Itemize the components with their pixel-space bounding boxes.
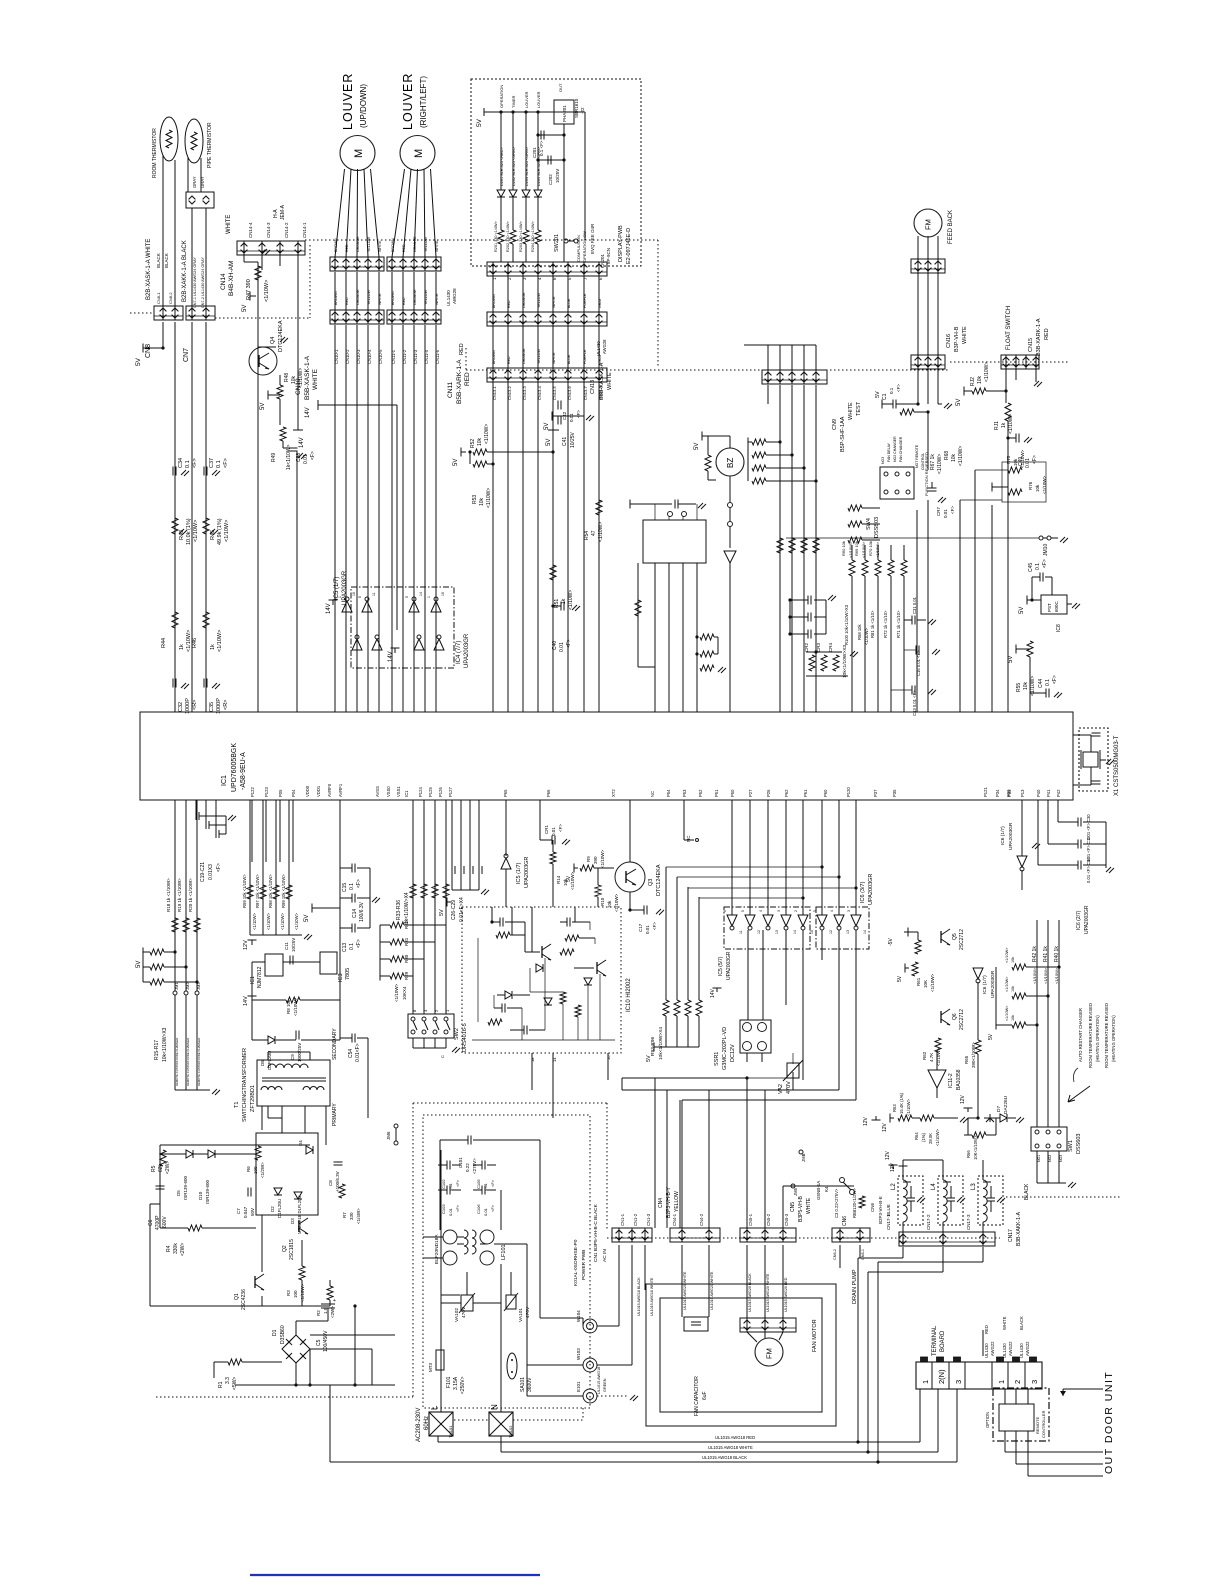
svg-text:BLACK: BLACK	[164, 253, 169, 268]
svg-text:B5B-XARK-1-A: B5B-XARK-1-A	[456, 359, 463, 404]
svg-text:P26: P26	[766, 789, 771, 797]
svg-text:WHITE: WHITE	[552, 352, 556, 364]
svg-text:B3P5-VH-B: B3P5-VH-B	[798, 1195, 804, 1222]
svg-text:C41: C41	[562, 437, 568, 446]
svg-text:C5: C5	[316, 1339, 322, 1346]
svg-text:RED: RED	[345, 297, 349, 305]
svg-text:POWER PWB: POWER PWB	[581, 1250, 587, 1280]
svg-text:R7: R7	[342, 1212, 347, 1218]
svg-text:JMB: JMB	[801, 1153, 806, 1162]
svg-text:12: 12	[757, 930, 761, 934]
svg-text:TERMINAL: TERMINAL	[932, 1325, 938, 1356]
svg-text:R59 10k <1/10W>: R59 10k <1/10W>	[242, 874, 247, 908]
svg-text:WHITE: WHITE	[962, 326, 968, 344]
svg-text:R69 10k: R69 10k	[854, 541, 859, 556]
svg-text:CN11-5: CN11-5	[435, 349, 440, 364]
svg-text:11: 11	[739, 930, 743, 934]
svg-text:390: 390	[593, 856, 598, 864]
svg-text:UPA2003GR: UPA2003GR	[524, 857, 530, 888]
svg-text:ZFT29BD1: ZFT29BD1	[250, 1085, 256, 1112]
svg-text:IC8: IC8	[1056, 624, 1062, 632]
svg-text:JM2: JM2	[185, 982, 190, 990]
svg-text:1: 1	[427, 596, 431, 598]
svg-text:2SC4236: 2SC4236	[241, 1289, 247, 1310]
svg-text:WHITE: WHITE	[312, 368, 319, 390]
svg-text:UPA2003GR: UPA2003GR	[1008, 822, 1014, 850]
svg-text:VDD0: VDD0	[305, 785, 310, 797]
svg-text:49.9k (1%): 49.9k (1%)	[217, 518, 223, 545]
svg-text:100/6.3V: 100/6.3V	[359, 901, 365, 922]
svg-text:WHITE: WHITE	[435, 293, 439, 305]
svg-text:B8B-XASK-1-A: B8B-XASK-1-A	[599, 362, 605, 400]
svg-text:NOT REMOTE: NOT REMOTE	[915, 444, 919, 468]
svg-text:(UP/DOWN): (UP/DOWN)	[359, 84, 368, 128]
svg-text:AVRF0: AVRF0	[327, 783, 332, 797]
svg-text:RJ2: RJ2	[970, 377, 976, 386]
svg-text:TM101: TM101	[448, 1425, 453, 1438]
svg-text:11: 11	[372, 592, 376, 596]
svg-text:<1/10W>: <1/10W>	[614, 893, 619, 912]
svg-text:2SC2712: 2SC2712	[959, 1009, 965, 1030]
svg-text:<1/4W>: <1/4W>	[356, 1208, 361, 1224]
svg-text:62k: 62k	[158, 1163, 164, 1172]
svg-text:P122: P122	[250, 787, 255, 797]
svg-text:JM6: JM6	[386, 1131, 391, 1140]
svg-text:<1/10W>: <1/10W>	[1032, 967, 1037, 984]
svg-text:2SC1815: 2SC1815	[289, 1239, 295, 1260]
svg-text:B3B-XARK-1-A: B3B-XARK-1-A	[1036, 318, 1042, 356]
svg-text:5V: 5V	[476, 118, 483, 127]
svg-text:CN6-2: CN6-2	[833, 1249, 837, 1260]
svg-text:P34: P34	[995, 789, 1000, 797]
svg-text:16: 16	[441, 592, 445, 596]
svg-text:R98 10k <1/10W>: R98 10k <1/10W>	[268, 874, 273, 908]
svg-text:OPERATION: OPERATION	[499, 85, 504, 108]
svg-text:13: 13	[846, 930, 850, 934]
svg-text:<1/10W>: <1/10W>	[217, 630, 223, 652]
svg-text:VA101: VA101	[518, 1308, 524, 1322]
svg-text:FAN DELAY: FAN DELAY	[887, 442, 891, 462]
svg-text:CN17-1: CN17-1	[886, 1214, 891, 1230]
svg-text:1k: 1k	[1001, 422, 1007, 428]
svg-text:YELLOW: YELLOW	[367, 289, 371, 305]
svg-text:CN10-5: CN10-5	[378, 349, 383, 364]
svg-text:0.1: 0.1	[216, 460, 222, 468]
svg-text:VSS0: VSS0	[386, 786, 391, 797]
svg-text:IC1: IC1	[221, 775, 228, 786]
svg-text:2: 2	[1013, 1380, 1022, 1384]
svg-text:YELLOW: YELLOW	[674, 1191, 680, 1212]
svg-text:C15: C15	[342, 883, 348, 892]
svg-text:<F>: <F>	[1052, 675, 1058, 684]
svg-text:FAN CAPACITOR: FAN CAPACITOR	[694, 1376, 700, 1416]
svg-text:OUT: OUT	[558, 83, 563, 92]
svg-text:LOUVER: LOUVER	[401, 73, 415, 130]
svg-text:(HEATING OPERATION): (HEATING OPERATION)	[1111, 1015, 1116, 1062]
svg-text:FEED BACK: FEED BACK	[948, 210, 954, 244]
svg-text:UL1430: UL1430	[446, 290, 451, 306]
svg-text:CN1-2: CN1-2	[633, 1213, 638, 1226]
svg-text:(RIGHT/LEFT): (RIGHT/LEFT)	[419, 76, 428, 128]
svg-text:12V: 12V	[863, 1116, 869, 1126]
svg-text:<1/10W>: <1/10W>	[1043, 967, 1048, 984]
svg-text:<1/10W>: <1/10W>	[600, 849, 605, 868]
svg-text:100: 100	[253, 1166, 258, 1174]
svg-text:REMOTE CUSTOM CODE CHANGER: REMOTE CUSTOM CODE CHANGER	[186, 1038, 190, 1086]
svg-text:FM: FM	[765, 1348, 774, 1359]
svg-text:600C: 600C	[1054, 600, 1059, 612]
svg-text:C26-C29: C26-C29	[451, 900, 457, 920]
svg-text:CN7: CN7	[183, 348, 190, 362]
svg-text:BLACK: BLACK	[1019, 1316, 1024, 1330]
svg-text:SBR1610: SBR1610	[574, 98, 579, 118]
svg-text:10k<1/10W>X3: 10k<1/10W>X3	[842, 645, 848, 678]
svg-text:CN7-2 UL1430 AWG24 GRAY: CN7-2 UL1430 AWG24 GRAY	[201, 257, 205, 308]
svg-text:C7: C7	[236, 1208, 241, 1214]
svg-text:CN9: CN9	[832, 419, 838, 430]
svg-text:K01AL-0SORHSE-P0: K01AL-0SORHSE-P0	[573, 1239, 579, 1286]
svg-text:CN1-1: CN1-1	[620, 1213, 625, 1226]
svg-text:10/25V: 10/25V	[291, 938, 296, 952]
svg-text:R53: R53	[472, 495, 478, 504]
svg-text:N: N	[490, 1404, 499, 1410]
svg-text:-22: -22	[580, 107, 585, 114]
svg-text:Q2: Q2	[282, 1245, 288, 1252]
svg-text:E101: E101	[576, 1381, 581, 1392]
svg-text:VDD1: VDD1	[316, 785, 321, 797]
svg-text:P127: P127	[448, 787, 453, 797]
svg-text:CN4-2: CN4-2	[699, 1213, 704, 1226]
svg-text:CN14-3: CN14-3	[266, 222, 271, 238]
svg-text:Q1: Q1	[234, 1293, 240, 1300]
svg-text:L3: L3	[971, 1183, 977, 1190]
svg-text:<1/10W>: <1/10W>	[1054, 967, 1059, 984]
svg-text:NO3: NO3	[1059, 1155, 1063, 1162]
svg-text:60Hz: 60Hz	[424, 1416, 430, 1430]
svg-text:5V: 5V	[988, 1033, 994, 1040]
svg-text:100: 100	[293, 1290, 298, 1298]
svg-text:3: 3	[954, 1380, 963, 1384]
svg-text:BA10358: BA10358	[956, 1069, 962, 1090]
svg-text:0.01: 0.01	[483, 1207, 488, 1216]
svg-text:B2B-XAKK-1-A BLACK: B2B-XAKK-1-A BLACK	[182, 240, 188, 302]
svg-text:B5B-XASK-1-A: B5B-XASK-1-A	[304, 355, 311, 400]
svg-text:C37: C37	[209, 458, 215, 468]
svg-text:UL1015 AWG20 RED: UL1015 AWG20 RED	[784, 1277, 788, 1312]
svg-text:CN1-3: CN1-3	[646, 1213, 651, 1226]
svg-text:B4B-XH-AM: B4B-XH-AM	[228, 261, 235, 296]
svg-text:R51: R51	[554, 599, 560, 608]
svg-text:5: 5	[741, 910, 745, 912]
svg-text:1: 1	[921, 1380, 930, 1384]
svg-text:12V: 12V	[960, 1094, 966, 1104]
svg-text:12V: 12V	[882, 1122, 888, 1132]
svg-text:BLACK: BLACK	[1024, 1183, 1030, 1200]
svg-text:R97 10k <1/10W>: R97 10k <1/10W>	[255, 874, 260, 908]
svg-text:P123: P123	[264, 787, 269, 797]
svg-text:<1/10W>: <1/10W>	[486, 488, 492, 508]
svg-text:<R>: <R>	[192, 700, 198, 710]
svg-text:0.1: 0.1	[1035, 563, 1041, 570]
svg-text:14V: 14V	[299, 437, 305, 448]
svg-text:50V: 50V	[250, 1208, 255, 1216]
svg-text:R64: R64	[914, 1132, 919, 1140]
svg-text:RED: RED	[1044, 328, 1050, 340]
svg-text:CN10-3: CN10-3	[356, 349, 361, 364]
svg-text:R2: R2	[316, 1310, 321, 1316]
svg-text:14V: 14V	[710, 988, 716, 998]
svg-text:0.01X3: 0.01X3	[208, 864, 214, 880]
svg-text:P53: P53	[682, 789, 687, 797]
svg-text:14: 14	[863, 930, 867, 934]
svg-text:14V: 14V	[388, 651, 394, 662]
svg-text:<1/10W>: <1/10W>	[252, 912, 257, 930]
svg-text:<1/10W>: <1/10W>	[937, 454, 943, 474]
svg-text:5V: 5V	[453, 459, 459, 466]
svg-text:IC6 (2/7): IC6 (2/7)	[1076, 910, 1082, 930]
svg-text:NO3: NO3	[881, 457, 885, 464]
svg-text:CN11-1: CN11-1	[391, 349, 396, 364]
svg-text:<1/10W>: <1/10W>	[906, 1098, 911, 1116]
svg-text:3: 3	[1030, 1380, 1039, 1384]
svg-text:R72 1k <1/10>: R72 1k <1/10>	[883, 610, 888, 638]
svg-text:<F>: <F>	[356, 879, 362, 888]
svg-text:CN10-1: CN10-1	[334, 349, 339, 364]
svg-text:R52: R52	[470, 439, 476, 448]
svg-text:R48: R48	[284, 373, 290, 382]
svg-text:0.01: 0.01	[448, 1207, 453, 1216]
svg-text:+100/6.3V: +100/6.3V	[335, 1171, 340, 1192]
svg-text:R55: R55	[1016, 683, 1022, 692]
svg-text:D7: D7	[996, 1106, 1002, 1112]
svg-text:DSSB03: DSSB03	[874, 517, 880, 538]
svg-text:R68: R68	[944, 451, 950, 460]
svg-text:M: M	[413, 149, 425, 158]
svg-text:P04: P04	[291, 789, 296, 797]
svg-text:5: 5	[813, 910, 817, 912]
svg-text:5V: 5V	[956, 399, 962, 406]
svg-text:CN11: CN11	[447, 381, 454, 398]
svg-text:<1/2W>: <1/2W>	[260, 1162, 265, 1178]
svg-text:D6: D6	[260, 1060, 265, 1066]
svg-text:NO1: NO1	[1037, 1155, 1041, 1162]
svg-text:WHITE: WHITE	[552, 296, 556, 308]
svg-text:D1FL20U: D1FL20U	[277, 1199, 282, 1218]
svg-text:YELLOW: YELLOW	[367, 236, 371, 252]
svg-text:RB8120<1/2W>: RB8120<1/2W>	[852, 1188, 857, 1218]
svg-text:2SC2712: 2SC2712	[959, 929, 965, 950]
svg-text:<F>: <F>	[455, 1204, 460, 1212]
svg-text:K4: K4	[824, 1186, 829, 1192]
svg-text:C3 0.22<275V>: C3 0.22<275V>	[834, 1188, 839, 1218]
svg-text:R58 10k: R58 10k	[857, 623, 862, 640]
svg-text:R54: R54	[584, 531, 590, 540]
svg-text:<F>: <F>	[490, 1179, 495, 1187]
svg-text:C: C	[440, 1055, 445, 1058]
svg-text:REMOTE: REMOTE	[1035, 1417, 1040, 1434]
svg-text:0.01: 0.01	[943, 509, 948, 518]
svg-text:UL1015 AWG20 WHITE: UL1015 AWG20 WHITE	[710, 1271, 714, 1310]
svg-text:<F>: <F>	[490, 1204, 495, 1212]
svg-text:14: 14	[793, 930, 797, 934]
svg-text:M: M	[353, 149, 365, 158]
svg-text:AUTO RESTART CHANGER: AUTO RESTART CHANGER	[1078, 1008, 1083, 1062]
svg-text:1k: 1k	[179, 644, 185, 650]
svg-text:ORANGE: ORANGE	[413, 289, 417, 305]
svg-text:P42: P42	[1056, 789, 1061, 797]
svg-text:UPA2003GR: UPA2003GR	[1084, 905, 1090, 934]
svg-text:CN1 B3P5-VH-B-C BLACK: CN1 B3P5-VH-B-C BLACK	[593, 1203, 599, 1262]
svg-text:R46: R46	[192, 638, 198, 648]
svg-text:R6: R6	[246, 1166, 251, 1172]
svg-text:GRAY: GRAY	[598, 297, 602, 308]
svg-text:XT2: XT2	[611, 789, 616, 797]
svg-text:1: 1	[338, 596, 342, 598]
svg-text:<1/10W>: <1/10W>	[484, 424, 490, 444]
svg-text:<1/10W>: <1/10W>	[294, 912, 299, 930]
svg-text:10.0k (1%): 10.0k (1%)	[186, 518, 192, 545]
svg-text:D10: D10	[198, 1191, 203, 1200]
svg-text:14V: 14V	[243, 996, 249, 1006]
svg-text:12: 12	[829, 930, 833, 934]
svg-text:<1/10W>: <1/10W>	[293, 997, 298, 1016]
svg-text:R8 10k: R8 10k	[286, 999, 291, 1014]
svg-text:B3B-XAKK-1-A: B3B-XAKK-1-A	[1016, 1211, 1022, 1246]
svg-text:FM: FM	[924, 219, 933, 230]
svg-text:C35: C35	[209, 702, 215, 712]
svg-text:AWG22: AWG22	[1025, 1341, 1030, 1356]
svg-text:5V: 5V	[694, 443, 700, 450]
svg-text:<1/10W>: <1/10W>	[568, 590, 574, 610]
svg-text:YELLOW: YELLOW	[537, 292, 541, 308]
svg-text:3600V: 3600V	[527, 1377, 533, 1392]
svg-text:5V: 5V	[546, 439, 552, 446]
svg-text:C14: C14	[352, 909, 358, 918]
svg-text:RED: RED	[459, 343, 465, 355]
svg-text:<1/10W>: <1/10W>	[1005, 976, 1009, 992]
svg-text:5V: 5V	[439, 909, 445, 916]
svg-text:P126: P126	[438, 787, 443, 797]
svg-text:0.01: 0.01	[1025, 458, 1031, 468]
svg-text:P27: P27	[748, 789, 753, 797]
svg-text:Q6: Q6	[952, 1013, 958, 1020]
svg-text:P120: P120	[846, 787, 851, 797]
svg-text:CN17: CN17	[1008, 1229, 1014, 1242]
svg-text:X1 CSTS0500MG03-T: X1 CSTS0500MG03-T	[1114, 735, 1120, 796]
svg-text:BROWN: BROWN	[492, 350, 496, 364]
svg-text:P66: P66	[546, 789, 551, 797]
svg-text:1k<1/10W>X4: 1k<1/10W>X4	[404, 892, 410, 924]
svg-text:CONTROLLER: CONTROLLER	[1041, 1411, 1046, 1438]
svg-text:P05: P05	[278, 789, 283, 797]
svg-text:NO2: NO2	[1048, 1155, 1052, 1162]
svg-text:IC6 (1/7): IC6 (1/7)	[1000, 826, 1006, 845]
svg-text:5V: 5V	[136, 961, 142, 968]
svg-text:E2-097J46E-D: E2-097J46E-D	[626, 228, 632, 264]
svg-text:AVRF1: AVRF1	[338, 783, 343, 797]
svg-text:CN7-1 UL1430 AWG24 GRAY: CN7-1 UL1430 AWG24 GRAY	[193, 257, 197, 308]
svg-text:<250V>: <250V>	[460, 1376, 466, 1394]
svg-text:UL1015 AWG20 WHITE: UL1015 AWG20 WHITE	[683, 1271, 687, 1310]
svg-text:REMOTE CUSTOM CODE CHANGER: REMOTE CUSTOM CODE CHANGER	[175, 1038, 179, 1086]
svg-text:BOARD: BOARD	[940, 1330, 946, 1352]
svg-text:<F>: <F>	[223, 458, 229, 468]
svg-text:ELF20ND18A: ELF20ND18A	[434, 1234, 440, 1264]
svg-text:10k: 10k	[1013, 458, 1018, 466]
svg-text:R33-R36: R33-R36	[396, 900, 402, 920]
svg-text:R5: R5	[151, 1165, 157, 1172]
svg-text:BLUE: BLUE	[886, 1204, 891, 1216]
svg-text:R81 1k <1/10>: R81 1k <1/10>	[870, 610, 875, 638]
svg-text:CN14-2: CN14-2	[284, 222, 289, 238]
svg-text:VA2: VA2	[778, 1084, 784, 1094]
svg-text:RED: RED	[507, 300, 511, 308]
svg-text:C102: C102	[441, 1179, 446, 1189]
svg-text:C32: C32	[178, 702, 184, 712]
svg-text:C45: C45	[1028, 563, 1034, 572]
svg-text:0.1: 0.1	[349, 883, 355, 890]
svg-text:R19 1k <1/10W>: R19 1k <1/10W>	[177, 878, 182, 912]
svg-text:BROWN: BROWN	[492, 294, 496, 308]
svg-text:C54: C54	[348, 1049, 354, 1058]
svg-text:CN5-2: CN5-2	[766, 1213, 771, 1226]
svg-text:D2: D2	[270, 1206, 275, 1212]
svg-text:10k: 10k	[1011, 1015, 1015, 1021]
svg-text:<F>: <F>	[1042, 559, 1048, 568]
svg-text:PURPLE: PURPLE	[583, 349, 587, 364]
svg-text:UL1015 AWG18 BLACK: UL1015 AWG18 BLACK	[702, 1455, 747, 1460]
svg-text:UPA2003GR: UPA2003GR	[464, 633, 470, 668]
svg-text:0.047: 0.047	[243, 1206, 248, 1218]
svg-text:CONTROL: CONTROL	[921, 453, 925, 470]
svg-text:-A58-9EU-A: -A58-9EU-A	[240, 752, 247, 790]
svg-text:<F>: <F>	[455, 1179, 460, 1187]
svg-text:PURPLE: PURPLE	[583, 293, 587, 308]
svg-text:5V: 5V	[260, 403, 266, 410]
svg-text:D3SB60: D3SB60	[280, 1325, 286, 1344]
svg-text:5V: 5V	[135, 357, 142, 366]
svg-text:CN8: CN8	[145, 344, 152, 358]
svg-text:IC4 (7/7): IC4 (7/7)	[456, 641, 462, 664]
svg-text:14: 14	[419, 592, 423, 596]
svg-text:C201: C201	[532, 147, 537, 158]
svg-text:5V: 5V	[242, 305, 248, 312]
svg-text:REMOTE CUSTOM CODE CHANGER: REMOTE CUSTOM CODE CHANGER	[197, 1038, 201, 1086]
svg-text:WHITE: WHITE	[607, 372, 613, 390]
svg-text:IC6 (1/7): IC6 (1/7)	[982, 975, 988, 994]
svg-text:WHITE: WHITE	[435, 240, 439, 252]
svg-text:IC11-2: IC11-2	[948, 1073, 954, 1088]
svg-text:SA101: SA101	[520, 1377, 526, 1392]
svg-text:0.01<F>X4: 0.01<F>X4	[459, 897, 465, 922]
svg-text:28.0K: 28.0K	[928, 1133, 933, 1144]
svg-text:B2P3-VH-B-E: B2P3-VH-B-E	[878, 1196, 883, 1224]
svg-text:PIPE THERMISTOR: PIPE THERMISTOR	[207, 122, 213, 168]
svg-text:YELLOW: YELLOW	[424, 236, 428, 252]
svg-text:ORANGE: ORANGE	[522, 348, 526, 364]
svg-text:<1/10W>: <1/10W>	[984, 362, 990, 382]
svg-text:C8: C8	[328, 1180, 333, 1186]
svg-text:DRAIN PUMP: DRAIN PUMP	[852, 1269, 858, 1304]
svg-text:R14: R14	[556, 875, 561, 884]
svg-text:D4: D4	[298, 1140, 303, 1146]
svg-text:<1/10W>: <1/10W>	[224, 520, 230, 542]
svg-text:3: 3	[777, 910, 781, 912]
svg-text:<1/10W>: <1/10W>	[958, 446, 964, 466]
svg-text:10/25V: 10/25V	[570, 431, 576, 448]
svg-text:C44: C44	[1038, 679, 1044, 688]
svg-text:12V: 12V	[885, 1150, 891, 1160]
